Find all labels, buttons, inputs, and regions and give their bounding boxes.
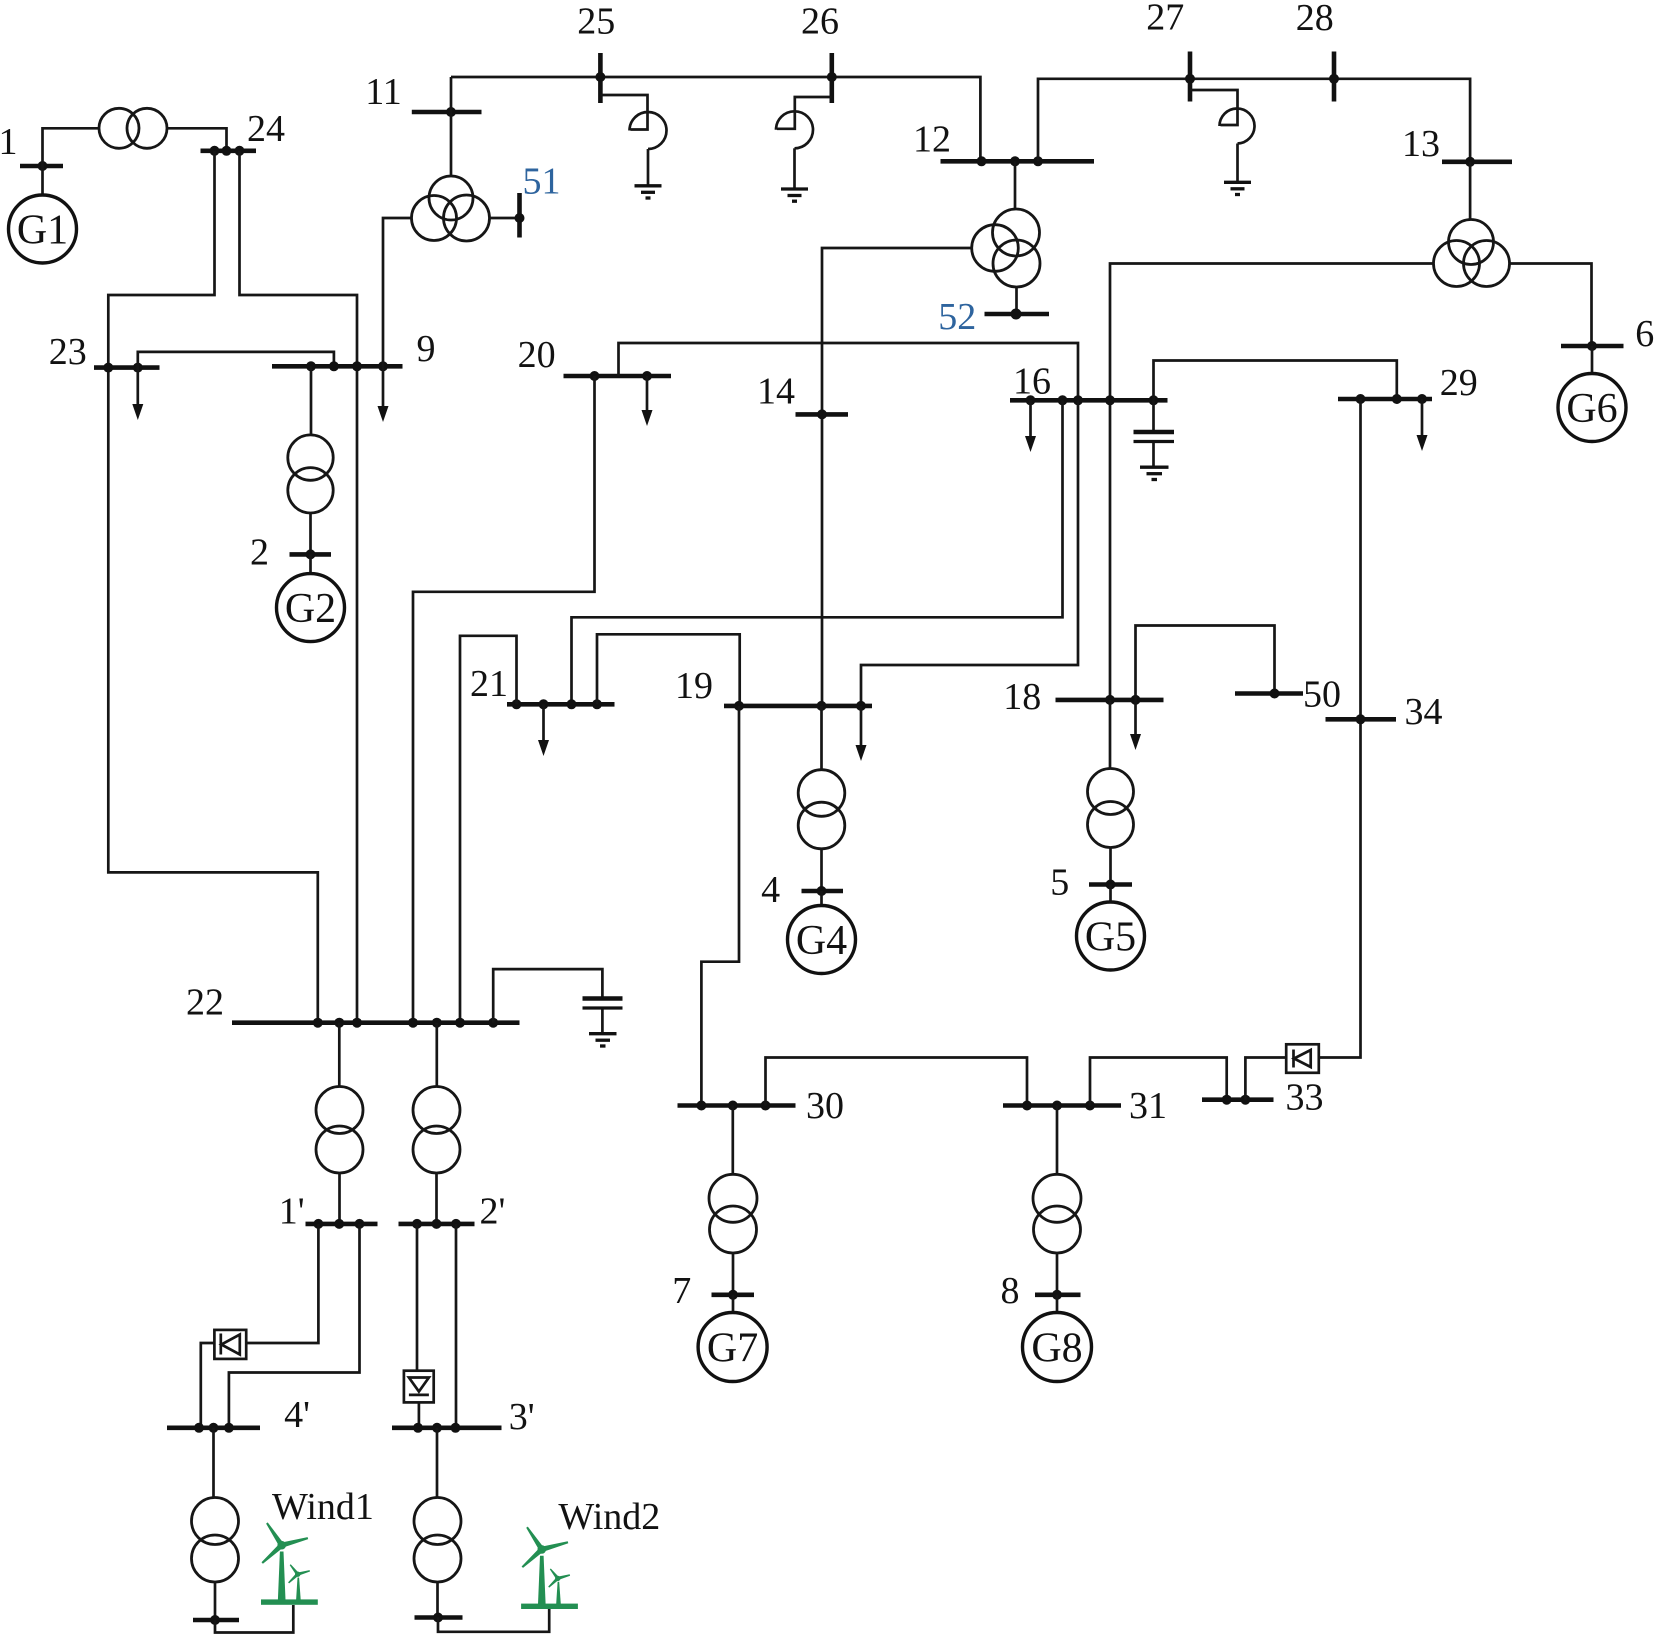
junctions on bus 33 xyxy=(1222,1095,1251,1105)
svg-text:13: 13 xyxy=(1402,123,1440,165)
wire bus1p to bus4p direct xyxy=(229,1224,360,1428)
junctions on bus 9 xyxy=(306,361,388,371)
bus 21 xyxy=(507,702,615,707)
junctions on bus 1' xyxy=(313,1219,364,1229)
wire bus29 to bus34 to converter 33 xyxy=(1319,399,1361,1058)
load arrow at bus 18 xyxy=(1130,700,1141,750)
junction on bus 1 xyxy=(38,161,48,171)
svg-text:21: 21 xyxy=(470,663,508,705)
junction on bus 13 xyxy=(1465,157,1475,167)
wire bus20 to bus16 link xyxy=(619,343,1079,400)
wire bus5 to G5 xyxy=(1109,885,1112,903)
svg-text:18: 18 xyxy=(1003,676,1041,718)
load arrow at bus 16 xyxy=(1025,400,1036,452)
svg-text:G1: G1 xyxy=(17,208,68,254)
bus 20 xyxy=(564,374,672,379)
wire C2 to bus 3p xyxy=(418,1402,421,1427)
bus 51 xyxy=(517,193,522,238)
junction on bus 50 xyxy=(1270,689,1280,699)
bus 29 xyxy=(1338,397,1432,402)
converter C2 box xyxy=(404,1371,434,1403)
wire bus18 to bus50 link xyxy=(1136,626,1275,700)
generator G7 xyxy=(698,1313,767,1382)
ground below reactor 27 xyxy=(1224,182,1251,194)
svg-text:G5: G5 xyxy=(1085,915,1136,961)
svg-text:4: 4 xyxy=(761,869,780,911)
bus 22 xyxy=(232,1020,520,1025)
bus 28 xyxy=(1332,52,1337,102)
wire T13 left lead to bus16 and bus18 xyxy=(1110,264,1434,700)
wire bus22 to transformer T2p xyxy=(435,1023,438,1087)
wire T5 to bus 5 xyxy=(1109,848,1112,885)
svg-text:30: 30 xyxy=(806,1085,844,1127)
svg-text:31: 31 xyxy=(1129,1085,1167,1127)
svg-text:25: 25 xyxy=(577,1,615,43)
bus 25 xyxy=(598,53,603,103)
transformer T2' xyxy=(413,1087,460,1174)
wire T2p to bus 2p xyxy=(435,1173,438,1224)
junctions on bus 16 xyxy=(1026,395,1159,405)
wire T2 to bus 2 xyxy=(309,513,312,554)
junction at bus 26 xyxy=(827,72,837,82)
wire bus23 to bus9 link xyxy=(138,352,334,368)
svg-text:12: 12 xyxy=(913,119,951,161)
transformer T4 (G4 step-up) xyxy=(798,770,845,849)
ground below capacitor 22 xyxy=(589,1034,617,1046)
load arrow at bus 20 xyxy=(642,376,653,426)
bus 34 xyxy=(1326,717,1397,722)
bus 3' xyxy=(392,1426,502,1431)
ground below reactor 26 xyxy=(781,189,808,201)
bus 1 xyxy=(20,164,63,169)
wire T4 to bus 4 xyxy=(820,849,823,891)
wire bus3p to transformer Twind2 xyxy=(436,1428,439,1498)
transformer Twind2 xyxy=(414,1498,461,1583)
bus 2' xyxy=(399,1222,475,1227)
ground below capacitor 16 xyxy=(1140,467,1169,479)
junction at bus 28 xyxy=(1329,74,1339,84)
wire bus8 to G8 xyxy=(1056,1295,1059,1312)
transformer T1' xyxy=(316,1087,363,1174)
bus 14 xyxy=(796,412,849,417)
bus 2 xyxy=(290,552,332,557)
shunt capacitor at bus 22 xyxy=(493,969,622,1032)
junctions on bus 22 xyxy=(313,1018,498,1028)
wire bus20 to bus22 xyxy=(413,376,595,1023)
wire bus16 to bus21 link xyxy=(572,400,1063,704)
transformer T2 (G2 step-up) xyxy=(288,435,333,513)
transformer Twind1 xyxy=(192,1498,239,1583)
bus 23 xyxy=(94,365,160,370)
svg-text:29: 29 xyxy=(1440,362,1478,404)
junctions on bus 2' xyxy=(412,1219,461,1229)
wire T51 right lead to bus 51 xyxy=(490,217,520,220)
junction on bus 14 xyxy=(817,409,827,419)
wire bus24 to bus9 to bus22 xyxy=(240,151,358,1023)
junction at bus 27 xyxy=(1185,74,1195,84)
svg-text:26: 26 xyxy=(801,1,839,43)
svg-text:50: 50 xyxy=(1303,674,1341,716)
junctions on bus 21 xyxy=(512,699,603,709)
generator G6 xyxy=(1558,374,1626,442)
bus 13 xyxy=(1442,160,1512,165)
wire bus16 to bus19 link xyxy=(861,400,1078,706)
wire bus2p to converter C2 xyxy=(416,1224,419,1371)
bus 26 xyxy=(829,53,834,103)
junctions on bus 23 xyxy=(103,363,143,373)
transformer T1 (G1 step-up) xyxy=(99,108,167,148)
svg-text:28: 28 xyxy=(1296,0,1334,39)
junctions on bus 4' xyxy=(194,1423,234,1433)
wire Twind2 to wind2 terminal bus xyxy=(436,1582,439,1618)
bus 4 xyxy=(802,889,844,894)
wire T52 left lead to bus14 and bus19 xyxy=(822,248,972,706)
load arrow at bus 23 xyxy=(132,368,143,420)
shunt reactor at bus 25 xyxy=(600,95,666,185)
svg-text:34: 34 xyxy=(1405,691,1443,733)
three-winding transformer T52 xyxy=(972,209,1040,287)
converter C33 box xyxy=(1286,1044,1319,1073)
wire wind2 terminal to turbine Wind2 xyxy=(438,1609,549,1632)
wire bus12 riser to bus27 bus28 and bus13 xyxy=(1038,79,1470,162)
wind turbine Wind1 xyxy=(261,1522,318,1604)
svg-text:G7: G7 xyxy=(707,1326,758,1372)
svg-text:3': 3' xyxy=(509,1396,535,1438)
wire bus9 to transformer T2 xyxy=(310,366,313,435)
svg-text:27: 27 xyxy=(1146,0,1184,39)
svg-text:22: 22 xyxy=(186,982,224,1024)
wire bus1p to converter C1 xyxy=(246,1224,318,1343)
svg-text:1: 1 xyxy=(0,121,18,163)
junctions on bus 24 xyxy=(210,146,245,156)
wire bus30 to bus31 link xyxy=(766,1058,1028,1106)
bus 9 xyxy=(272,364,403,369)
wire T8 to bus 8 xyxy=(1056,1253,1059,1295)
wire T13 right lead to bus 6 xyxy=(1510,264,1592,347)
wire bus24 to bus23 to bus22 (left jog) xyxy=(108,151,317,1023)
bus 33 xyxy=(1202,1097,1274,1102)
wire bus22 to transformer T1p xyxy=(338,1023,341,1087)
svg-text:2': 2' xyxy=(479,1191,505,1233)
wire Twind1 to wind1 terminal bus xyxy=(214,1582,217,1620)
bus 6 xyxy=(1561,344,1624,349)
junction on bus 52 xyxy=(1011,309,1022,320)
wire T52 bottom lead to bus 52 xyxy=(1015,287,1018,314)
junctions on bus 29 xyxy=(1356,394,1428,404)
svg-text:1': 1' xyxy=(279,1191,305,1233)
svg-text:G2: G2 xyxy=(285,586,336,632)
svg-text:G6: G6 xyxy=(1566,386,1617,432)
junction on bus 4 xyxy=(817,886,827,896)
junction at bus 25 xyxy=(595,72,605,82)
wire bus6 to G6 xyxy=(1591,346,1594,374)
svg-text:19: 19 xyxy=(675,665,713,707)
transformer T7 (G7 step-up) xyxy=(709,1174,757,1253)
wind1 terminal bus xyxy=(193,1618,239,1623)
junctions on bus 18 xyxy=(1105,695,1141,705)
svg-text:14: 14 xyxy=(757,371,795,413)
wire bus11 riser to top line xyxy=(450,77,453,112)
three-winding transformer T51 xyxy=(412,176,490,241)
wire bus19 to bus30 xyxy=(701,706,739,1106)
svg-text:24: 24 xyxy=(247,108,285,150)
converter C1 box xyxy=(214,1330,246,1359)
svg-text:7: 7 xyxy=(672,1270,691,1312)
bus 12 xyxy=(941,159,1095,164)
wire bus18 to transformer T5 xyxy=(1109,700,1112,769)
junctions on bus 19 xyxy=(734,701,866,711)
wire bus31 to bus33 link xyxy=(1090,1058,1227,1106)
bus 52 xyxy=(985,312,1050,317)
svg-text:52: 52 xyxy=(938,296,976,338)
svg-text:6: 6 xyxy=(1635,313,1654,355)
wire bus4p to transformer Twind1 xyxy=(212,1428,215,1498)
junction on bus 2 xyxy=(306,549,316,559)
svg-text:33: 33 xyxy=(1286,1077,1324,1119)
wire bus30 to transformer T7 xyxy=(731,1106,734,1175)
bus 16 xyxy=(1010,398,1168,403)
bus 30 xyxy=(678,1103,796,1108)
svg-text:Wind1: Wind1 xyxy=(272,1486,374,1528)
generator G1 xyxy=(9,195,77,263)
wire bus16 to bus29 link xyxy=(1154,361,1397,401)
load arrow at bus 21 xyxy=(538,704,549,756)
wire bus33 to converter C33 xyxy=(1245,1058,1286,1100)
shunt reactor at bus 26 xyxy=(776,97,832,188)
wind turbine Wind2 xyxy=(521,1527,578,1609)
wire bus13 to transformer T13 xyxy=(1469,162,1472,220)
transformer T5 (G5 step-up) xyxy=(1088,769,1134,848)
svg-text:4': 4' xyxy=(284,1394,310,1436)
wire C1 to bus 4p xyxy=(201,1343,215,1428)
load arrow at bus 29 xyxy=(1417,399,1428,451)
load arrow at bus 19 xyxy=(856,706,867,761)
generator G5 xyxy=(1077,902,1145,970)
svg-text:G8: G8 xyxy=(1031,1326,1082,1372)
svg-text:Wind2: Wind2 xyxy=(558,1496,660,1538)
wire T7 to bus 7 xyxy=(732,1253,735,1295)
junctions on bus 12 xyxy=(977,156,1044,166)
wire bus12 to transformer T52 xyxy=(1014,161,1017,209)
junction on bus 34 xyxy=(1356,714,1366,724)
generator G2 xyxy=(277,574,345,642)
svg-text:23: 23 xyxy=(49,331,87,373)
junction on bus 11 xyxy=(446,107,456,117)
svg-text:9: 9 xyxy=(417,328,436,370)
wire bus1 to transformer T1 xyxy=(43,128,100,166)
wire bus2 to G2 xyxy=(309,554,312,573)
bus 11 xyxy=(412,110,482,115)
bus 1' xyxy=(306,1222,378,1227)
wire bus31 to transformer T8 xyxy=(1056,1106,1059,1175)
wire bus21 to bus19 link xyxy=(597,634,740,706)
wire bus4 to G4 xyxy=(820,891,823,906)
bus 50 xyxy=(1235,691,1303,696)
junctions on bus 30 xyxy=(696,1101,770,1111)
wire bus19 to transformer T4 xyxy=(820,706,823,770)
wind2 terminal bus xyxy=(415,1615,463,1620)
wire bus7 to G7 xyxy=(732,1295,735,1312)
three-winding transformer T13 xyxy=(1434,220,1510,287)
bus 5 xyxy=(1089,882,1132,887)
bus 4' xyxy=(167,1426,260,1431)
junction on bus 8 xyxy=(1052,1290,1062,1300)
wire T1p to bus 1p xyxy=(338,1173,341,1224)
bus 18 xyxy=(1056,698,1164,703)
wire top line bus11 to bus25 to bus26 to bus12 xyxy=(451,77,980,161)
svg-text:2: 2 xyxy=(250,532,269,574)
bus 24 xyxy=(201,149,257,154)
bus 7 xyxy=(712,1293,755,1298)
junction on bus 51 xyxy=(515,213,525,223)
wire bus2p to bus3p direct xyxy=(455,1224,458,1428)
wire bus21 to bus22 link xyxy=(460,636,517,1023)
bus 31 xyxy=(1003,1103,1121,1108)
junctions on bus 20 xyxy=(590,371,653,381)
wire bus1 to G1 xyxy=(41,166,44,195)
svg-text:5: 5 xyxy=(1050,862,1069,904)
ground below reactor 25 xyxy=(635,186,662,198)
wire wind1 terminal to turbine Wind1 xyxy=(215,1605,293,1633)
generator G8 xyxy=(1023,1313,1092,1382)
transformer T8 (G8 step-up) xyxy=(1033,1174,1081,1253)
svg-text:51: 51 xyxy=(523,161,561,203)
shunt capacitor at bus 16 xyxy=(1134,400,1175,466)
junction on bus 7 xyxy=(728,1290,738,1300)
junctions on bus 31 xyxy=(1022,1101,1095,1111)
junction on bus 5 xyxy=(1106,880,1116,890)
junction on bus 6 xyxy=(1587,341,1597,351)
junctions on bus 3' xyxy=(413,1423,461,1433)
bus 8 xyxy=(1035,1293,1081,1298)
bus 27 xyxy=(1188,52,1193,102)
svg-text:11: 11 xyxy=(365,71,402,113)
bus 19 xyxy=(724,704,872,709)
junction on wind2 terminal xyxy=(433,1613,443,1623)
junction on wind1 terminal xyxy=(210,1615,220,1625)
wire T51 left lead to bus 9 xyxy=(383,218,412,366)
svg-text:20: 20 xyxy=(518,334,556,376)
load arrow at bus 9 xyxy=(378,366,389,422)
wire T1 to bus 24 xyxy=(167,128,227,151)
wire bus11 to transformer T51 xyxy=(450,112,453,176)
shunt reactor at bus 27 xyxy=(1190,90,1254,181)
svg-text:G4: G4 xyxy=(796,918,847,964)
svg-text:8: 8 xyxy=(1001,1270,1020,1312)
generator G4 xyxy=(788,906,856,974)
